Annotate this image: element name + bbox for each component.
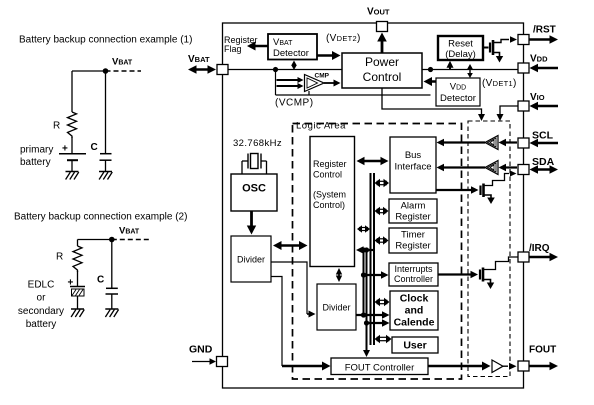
Logic Area dashed box xyxy=(293,124,462,380)
svg-text:VDD: VDD xyxy=(530,54,548,65)
wire R to battery ex1 xyxy=(71,137,73,154)
pad SDA xyxy=(518,165,529,175)
svg-text:VBAT: VBAT xyxy=(119,226,140,237)
buffer SCL input xyxy=(485,136,498,150)
arrow buffer to FOUT pad xyxy=(503,363,517,370)
svg-text:Clock: Clock xyxy=(400,293,429,305)
pad GND xyxy=(217,357,228,367)
label VDD pin xyxy=(530,54,548,65)
arrow inner Divider to Clock xyxy=(356,311,390,319)
svg-text:Logic Area: Logic Area xyxy=(296,121,346,132)
resistor R ex1 xyxy=(68,112,77,138)
label VBAT node ex2 xyxy=(119,226,140,237)
comparator CMP xyxy=(305,73,330,92)
pad SCL xyxy=(518,138,529,148)
pad VBAT xyxy=(217,65,228,75)
wire cap branch ex2 xyxy=(111,240,113,289)
capacitor C ex1 xyxy=(100,154,112,171)
svg-text:VIO: VIO xyxy=(530,92,545,103)
arrow VDD external xyxy=(530,64,559,72)
svg-text:Register: Register xyxy=(395,212,430,223)
wire R to EDLC ex2 xyxy=(77,271,79,287)
wire VCMP stub to comparator xyxy=(308,91,310,95)
label VIO pin xyxy=(530,92,545,103)
wire VBAT rail xyxy=(228,69,342,71)
block Reset Delay xyxy=(438,36,483,60)
transistor Q1 reset output xyxy=(483,36,517,62)
svg-text:R: R xyxy=(53,121,60,132)
pad VIO xyxy=(518,101,529,111)
svg-text:Battery backup connection exam: Battery backup connection example (1) xyxy=(19,35,192,46)
arrow VBAT external xyxy=(188,65,216,74)
arrow rail to Reset xyxy=(447,61,454,70)
IC outline xyxy=(223,23,524,388)
svg-text:(System: (System xyxy=(313,190,346,200)
arrow GND external xyxy=(192,358,216,365)
label SCL pin xyxy=(532,130,554,142)
svg-text:or: or xyxy=(37,293,47,304)
arrow /IRQ external xyxy=(530,253,559,261)
svg-text:battery: battery xyxy=(26,319,57,330)
label + ex1 xyxy=(62,144,68,155)
svg-text:secondary: secondary xyxy=(18,306,64,317)
wire Divider to FOUT path xyxy=(271,277,282,367)
wire VBAT top ex2 xyxy=(78,239,112,241)
svg-text:Timer: Timer xyxy=(401,230,425,241)
wire cap branch ex1 xyxy=(105,71,107,154)
svg-text:/RST: /RST xyxy=(533,25,556,36)
capacitor C ex2 xyxy=(106,288,119,308)
label primary battery xyxy=(20,145,53,169)
svg-text:Register: Register xyxy=(313,159,347,169)
ground ex2 left xyxy=(71,309,84,317)
arrow VBATdet to rail xyxy=(291,61,297,71)
svg-text:OSC: OSC xyxy=(242,183,266,195)
svg-text:Divider: Divider xyxy=(237,255,265,265)
svg-text:R: R xyxy=(56,252,63,263)
svg-text:C: C xyxy=(97,275,104,286)
arrow SCL pad to buffer xyxy=(499,139,518,146)
svg-text:primary: primary xyxy=(20,145,53,156)
svg-text:battery: battery xyxy=(20,157,51,168)
block FOUT Controller xyxy=(331,358,428,375)
EDLC symbol xyxy=(70,287,85,309)
arrow comparator input 2 xyxy=(277,83,304,89)
svg-text:C: C xyxy=(91,142,98,153)
block Register Control xyxy=(310,137,355,267)
svg-text:CMP: CMP xyxy=(315,73,330,80)
svg-text:32.768kHz: 32.768kHz xyxy=(233,138,282,149)
svg-text:Battery backup connection exam: Battery backup connection example (2) xyxy=(14,212,187,223)
svg-text:Control: Control xyxy=(363,70,402,84)
junction dot lineA interrupts xyxy=(361,272,366,277)
dashed stub VBAT ex2 xyxy=(112,239,150,241)
crystal 32.768kHz xyxy=(233,138,282,174)
svg-text:SCL: SCL xyxy=(532,130,554,142)
svg-text:Power: Power xyxy=(365,55,399,69)
arrow VDDdet to PowerControl xyxy=(424,77,437,86)
svg-text:Detector: Detector xyxy=(440,93,476,104)
transistor Q2 SDA output xyxy=(436,171,517,205)
svg-text:Calende: Calende xyxy=(394,317,435,329)
block Power Control xyxy=(342,53,422,88)
arrow rail to VDDdet xyxy=(467,64,473,78)
bus branch line B xyxy=(363,250,370,357)
resistor R ex2 xyxy=(73,246,82,272)
wire left branch ex2 xyxy=(77,240,79,247)
arrow FOUT external xyxy=(530,362,559,370)
arrow VBATdet to PowerControl xyxy=(317,51,341,60)
label VOUT xyxy=(367,7,390,18)
block VBAT Detector xyxy=(268,34,317,60)
svg-text:(VDET1): (VDET1) xyxy=(482,78,517,89)
junction dot VDD rail xyxy=(428,67,433,72)
block Interrupts Controller xyxy=(389,263,438,286)
block Bus Interface xyxy=(390,137,436,193)
arrow SCL external xyxy=(530,139,559,147)
label VCMP xyxy=(275,98,314,109)
wire VCMP vertical from dot xyxy=(275,70,277,96)
svg-text:and: and xyxy=(405,305,424,317)
block Clock and Calendar xyxy=(390,291,438,330)
label SDA pin xyxy=(532,156,555,168)
svg-text:Interface: Interface xyxy=(395,162,432,173)
vertical arrow RegisterControl to inner Divider xyxy=(336,268,342,282)
label R ex2 xyxy=(56,252,63,263)
arrow FOUTController to buffer xyxy=(428,362,491,371)
bus branch line A xyxy=(363,250,365,315)
node dot ex2 xyxy=(109,237,115,243)
title example 2 xyxy=(14,212,187,223)
label C ex2 xyxy=(97,275,104,286)
junction dot lineB clock xyxy=(364,320,369,325)
ground ex1 left xyxy=(66,172,79,180)
pad VDD xyxy=(518,63,529,73)
arrow Register Flag xyxy=(247,42,268,51)
svg-text:Flag: Flag xyxy=(224,44,242,54)
arrow SDA external xyxy=(530,165,559,174)
wire VIO pad to IO cell xyxy=(497,106,519,121)
block User xyxy=(392,337,438,353)
label FOUT pin xyxy=(529,345,556,356)
arrow SDA pad to buffer xyxy=(499,164,518,171)
arrow /RST external xyxy=(530,35,559,44)
arrow VIO external xyxy=(530,102,559,110)
svg-text:VBAT: VBAT xyxy=(188,54,210,65)
wire PowerControl to IO cell xyxy=(382,88,485,121)
block OSC xyxy=(231,174,277,211)
svg-text:FOUT Controller: FOUT Controller xyxy=(345,363,415,374)
svg-text:/IRQ: /IRQ xyxy=(529,243,550,254)
junction dot VBAT rail xyxy=(273,67,278,72)
wire VDD rail xyxy=(422,69,518,71)
bus to User arrow xyxy=(375,335,392,343)
svg-text:VBAT: VBAT xyxy=(112,57,133,68)
pad /RST xyxy=(518,35,529,45)
arrow buffer to BusInterface SDA xyxy=(437,164,486,171)
arrow RegisterControl to BusInterface xyxy=(357,157,389,165)
label + ex2 xyxy=(68,278,74,289)
bus to Clock arrow xyxy=(375,298,390,306)
svg-text:Controller: Controller xyxy=(394,274,433,284)
svg-text:EDLC: EDLC xyxy=(28,280,55,291)
label VBAT pin xyxy=(188,54,210,65)
label C ex1 xyxy=(91,142,98,153)
arrow buffer to BusInterface SCL xyxy=(437,139,486,146)
svg-text:Bus: Bus xyxy=(405,150,422,161)
arrow comparator output xyxy=(324,80,341,87)
pad VOUT xyxy=(377,22,388,32)
svg-text:GND: GND xyxy=(189,344,213,356)
pad /IRQ xyxy=(518,252,529,262)
ground ex2 right xyxy=(105,309,118,317)
svg-text:(Delay): (Delay) xyxy=(445,49,476,60)
wire VOUT arrow xyxy=(377,33,387,54)
label EDLC or secondary battery xyxy=(18,280,64,331)
junction dot lineA top xyxy=(361,247,366,252)
title example 1 xyxy=(19,35,192,46)
svg-text:User: User xyxy=(403,340,426,352)
block Divider left xyxy=(231,236,271,282)
wire left branch ex1 xyxy=(71,71,73,112)
pad FOUT xyxy=(518,361,529,371)
label Logic Area xyxy=(296,121,346,132)
arrow into FOUT Controller xyxy=(282,362,331,371)
buffer FOUT output xyxy=(492,360,503,373)
ground ex1 right xyxy=(99,172,112,180)
arrow OSC to Divider xyxy=(247,211,256,235)
transistor Q3 IRQ output xyxy=(438,257,518,289)
wire Divider to inner Divider xyxy=(271,262,316,318)
buffer SDA input xyxy=(485,161,498,175)
arrow comparator input 1 xyxy=(277,77,304,83)
label VDET2 xyxy=(326,33,361,44)
block Alarm Register xyxy=(389,199,437,223)
arrow lineB to Clock xyxy=(367,319,390,327)
wire VCMP horizontal xyxy=(276,94,431,96)
bus to Alarm arrow xyxy=(375,207,389,215)
svg-text:Divider: Divider xyxy=(322,303,350,313)
svg-text:Reset: Reset xyxy=(448,39,473,50)
bus to BusInterface arrow xyxy=(375,179,390,187)
label /IRQ pin xyxy=(529,243,550,254)
arrow lineA to Interrupts xyxy=(364,271,389,279)
svg-text:Control: Control xyxy=(313,170,342,180)
svg-text:Control): Control) xyxy=(313,200,345,210)
block Divider inner xyxy=(317,284,356,330)
junction dot lineB top xyxy=(364,247,369,252)
node dot ex1 xyxy=(103,68,109,74)
small bus double arrow xyxy=(357,225,370,233)
svg-text:FOUT: FOUT xyxy=(529,345,556,356)
label VDET1 xyxy=(482,78,517,89)
svg-text:(VCMP): (VCMP) xyxy=(275,98,314,109)
label R ex1 xyxy=(53,121,60,132)
block Timer Register xyxy=(389,228,437,253)
svg-text:Interrupts: Interrupts xyxy=(394,264,433,274)
dashed stub VBAT ex1 xyxy=(106,70,142,72)
svg-text:Detector: Detector xyxy=(273,48,309,59)
arrow RegisterControl to bus xyxy=(356,246,374,254)
svg-text:SDA: SDA xyxy=(532,156,555,168)
block VDD Detector xyxy=(436,78,480,106)
label GND pin xyxy=(189,344,213,356)
bus to Timer arrow xyxy=(375,236,389,245)
label /RST pin xyxy=(533,25,556,36)
junction dot lineA clock xyxy=(361,312,366,317)
svg-text:Alarm: Alarm xyxy=(401,201,426,212)
label Register Flag xyxy=(224,35,258,54)
svg-text:Register: Register xyxy=(395,241,430,252)
arrow Divider to RegisterControl xyxy=(273,241,308,250)
IO cell dashed box xyxy=(468,121,510,377)
wire VBAT top ex1 xyxy=(72,70,106,72)
svg-text:+: + xyxy=(62,144,68,155)
label VBAT node ex1 xyxy=(112,57,133,68)
battery primary ex1 xyxy=(59,154,86,171)
svg-text:(VDET2): (VDET2) xyxy=(326,33,361,44)
bus line pair xyxy=(371,173,375,345)
svg-text:VOUT: VOUT xyxy=(367,7,390,18)
